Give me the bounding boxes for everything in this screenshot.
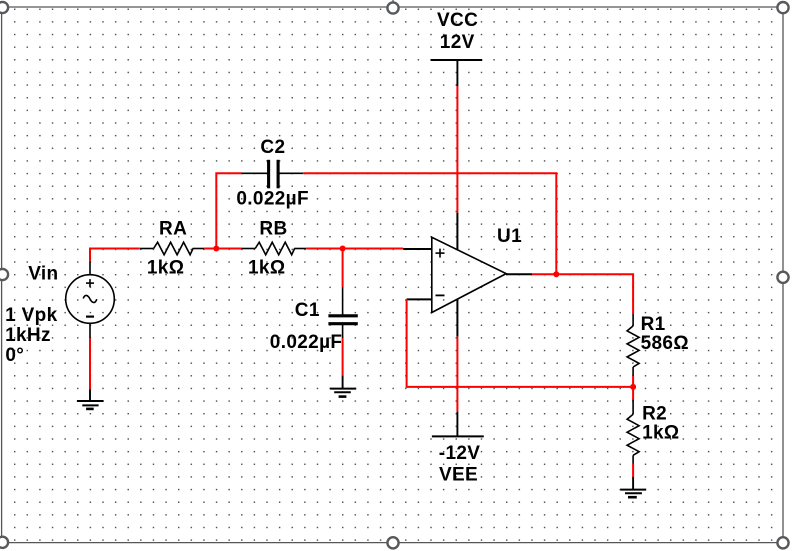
- wire: C2 right lead across and down to output node: [303, 173, 556, 274]
- resistor RA: [140, 242, 204, 255]
- svg-text:0°: 0°: [5, 345, 24, 366]
- wire: U1 negative supply pin to VEE: [456, 337, 458, 412]
- wire: U1 output to R1: [532, 274, 633, 313]
- ground (below Vin): [77, 389, 104, 409]
- svg-text:0.022µF: 0.022µF: [270, 332, 343, 353]
- svg-text:R1: R1: [641, 314, 666, 335]
- junction output node (output/C2/R1): [553, 271, 559, 277]
- svg-text:U1: U1: [497, 226, 522, 247]
- svg-text:-12V: -12V: [439, 443, 481, 464]
- op-amp U1: [432, 237, 506, 312]
- svg-text:586Ω: 586Ω: [641, 333, 689, 354]
- wire: node B down to C1: [342, 249, 344, 288]
- capacitor C2: [242, 160, 304, 189]
- svg-text:VCC: VCC: [437, 10, 478, 31]
- wire: VCC to U1 positive supply pin: [456, 86, 458, 213]
- pin: U1 negative supply: [456, 299, 458, 337]
- junction node B (RB/C1): [340, 246, 346, 252]
- voltage source Vin (AC source): [66, 262, 115, 339]
- svg-text:RB: RB: [259, 218, 287, 239]
- pin: U1 positive supply: [456, 213, 458, 250]
- resistor RB: [242, 242, 307, 255]
- resistor R2: [627, 399, 639, 463]
- pin: U1 output: [506, 273, 532, 275]
- resistor R1: [627, 314, 639, 376]
- svg-text:C2: C2: [260, 137, 285, 158]
- wire: Vin bottom terminal to ground: [89, 338, 91, 389]
- svg-text:12V: 12V: [440, 32, 475, 53]
- svg-text:1kΩ: 1kΩ: [248, 257, 285, 278]
- VCC power symbol: [431, 60, 483, 86]
- wire: R1 to node C: [632, 376, 634, 387]
- ground (below C1): [330, 376, 356, 397]
- svg-text:RA: RA: [159, 218, 187, 239]
- wire: Vin top terminal to RA: [90, 249, 140, 262]
- wire: feedback from node C to U1 inverting input: [407, 299, 633, 387]
- wire: RA to RB: [204, 248, 241, 250]
- junction node C (R1/R2/feedback): [630, 384, 636, 390]
- capacitor C1: [328, 287, 357, 338]
- svg-text:1kΩ: 1kΩ: [642, 423, 679, 444]
- wire: node A up and over to C2 left lead: [216, 173, 241, 248]
- svg-text:Vin: Vin: [28, 264, 58, 285]
- pin: U1 inverting input: [407, 298, 432, 300]
- svg-text:0.022µF: 0.022µF: [236, 189, 309, 210]
- ground (below R2): [620, 477, 646, 497]
- svg-text:1 Vpk: 1 Vpk: [5, 305, 58, 326]
- pin: U1 non-inverting input: [403, 248, 432, 250]
- wire: R2 to ground: [632, 387, 634, 477]
- svg-text:1kΩ: 1kΩ: [147, 257, 184, 278]
- junction node A (RA/RB/C2): [213, 246, 219, 252]
- svg-text:1kHz: 1kHz: [5, 325, 51, 346]
- svg-text:VEE: VEE: [439, 465, 478, 486]
- wire: C1 to ground: [342, 338, 344, 376]
- VEE power symbol: [432, 412, 484, 437]
- wire: RB to op-amp non-inverting input: [306, 248, 403, 250]
- svg-text:R2: R2: [642, 404, 667, 425]
- svg-text:C1: C1: [295, 300, 320, 321]
